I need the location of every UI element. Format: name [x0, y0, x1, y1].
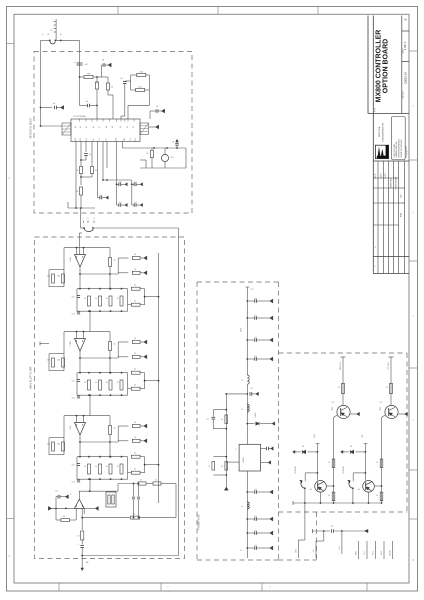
svg-text:1k: 1k	[134, 269, 136, 271]
svg-text:REL2: REL2	[381, 551, 383, 555]
svg-text:1d: 1d	[119, 182, 121, 184]
svg-text:DWG NO: DWG NO	[402, 91, 404, 98]
svg-text:POWER SAVE: POWER SAVE	[198, 514, 201, 530]
svg-text:MOB: MOB	[314, 434, 316, 437]
svg-text:1d: 1d	[53, 103, 55, 105]
svg-text:1k: 1k	[134, 338, 136, 340]
svg-text:4: 4	[375, 246, 377, 247]
svg-text:EXT 14V4: EXT 14V4	[388, 362, 390, 369]
svg-text:L2: L2	[241, 409, 243, 411]
svg-text:1k: 1k	[140, 480, 142, 482]
svg-text:2k8: 2k8	[57, 360, 60, 362]
svg-text:D1: D1	[99, 138, 101, 140]
svg-text:1k: 1k	[134, 353, 136, 355]
svg-text:1k: 1k	[134, 254, 136, 256]
svg-text:2k8: 2k8	[57, 276, 60, 278]
svg-text:2k4: 2k4	[47, 360, 50, 362]
svg-text:OPTION BOARD: OPTION BOARD	[383, 39, 390, 93]
svg-text:1d: 1d	[254, 545, 256, 547]
svg-text:C3: C3	[206, 419, 208, 421]
svg-text:7/6/99: 7/6/99	[381, 174, 383, 179]
svg-text:1d: 1d	[254, 489, 256, 491]
svg-text:1k: 1k	[106, 466, 108, 468]
svg-text:D4: D4	[120, 126, 122, 128]
svg-text:1d: 1d	[254, 298, 256, 300]
svg-text:-5: -5	[93, 218, 95, 220]
svg-text:C0022-1A: C0022-1A	[404, 72, 408, 84]
svg-text:1k: 1k	[95, 382, 97, 384]
svg-text:1d: 1d	[134, 182, 136, 184]
svg-text:1n4: 1n4	[72, 314, 75, 316]
svg-text:U2A: U2A	[69, 257, 72, 262]
svg-text:1k: 1k	[338, 387, 340, 389]
svg-text:1k: 1k	[106, 298, 108, 300]
svg-text:1: 1	[375, 265, 377, 266]
svg-text:1k: 1k	[84, 466, 86, 468]
svg-text:1k: 1k	[328, 495, 330, 497]
svg-text:1k: 1k	[95, 298, 97, 300]
svg-text:14KHz ELLIPTIC AMP: 14KHz ELLIPTIC AMP	[30, 366, 33, 389]
svg-text:U2C: U2C	[70, 425, 72, 430]
svg-text:LM2575: LM2575	[243, 457, 245, 463]
svg-text:1d: 1d	[254, 356, 256, 358]
svg-text:EXT: EXT	[362, 434, 364, 437]
svg-text:MOB 14V4: MOB 14V4	[340, 362, 342, 370]
svg-text:1k: 1k	[117, 298, 119, 300]
svg-text:1d: 1d	[156, 106, 158, 108]
svg-text:1n4: 1n4	[72, 465, 75, 467]
svg-text:1k: 1k	[134, 285, 136, 287]
svg-text:SENSE: SENSE	[390, 550, 392, 555]
svg-text:D6: D6	[133, 126, 135, 128]
svg-text:1k: 1k	[134, 469, 136, 471]
svg-text:1d: 1d	[134, 202, 136, 204]
svg-text:3n: 3n	[89, 154, 91, 156]
svg-text:1n4: 1n4	[72, 297, 75, 299]
svg-text:1n4: 1n4	[72, 381, 75, 383]
svg-text:CHK'D: CHK'D	[385, 173, 387, 179]
svg-text:EXT: EXT	[364, 551, 366, 554]
svg-text:1k: 1k	[208, 466, 210, 468]
svg-text:D2: D2	[106, 138, 108, 140]
svg-text:9: 9	[236, 449, 237, 451]
svg-text:TITLE: TITLE	[375, 108, 377, 112]
svg-text:OUT: OUT	[135, 138, 137, 141]
svg-text:2k8: 2k8	[57, 444, 60, 446]
svg-text:1k: 1k	[376, 462, 378, 464]
svg-text:2d: 2d	[102, 60, 104, 62]
svg-text:D0: D0	[93, 138, 95, 140]
svg-text:1d: 1d	[254, 516, 256, 518]
svg-text:CLK: CLK	[86, 138, 88, 141]
svg-text:D5: D5	[127, 126, 129, 128]
svg-text:B: B	[403, 18, 407, 20]
svg-text:1k: 1k	[84, 382, 86, 384]
svg-text:1k: 1k	[84, 298, 86, 300]
svg-text:VSS: VSS	[75, 138, 77, 141]
svg-text:1k: 1k	[106, 382, 108, 384]
svg-text:3k: 3k	[221, 466, 223, 468]
svg-text:2k4: 2k4	[47, 276, 50, 278]
svg-text:1k: 1k	[134, 437, 136, 439]
svg-text:1k: 1k	[221, 419, 223, 421]
svg-text:U1 HT8955A: U1 HT8955A	[73, 115, 86, 118]
svg-text:1k: 1k	[117, 382, 119, 384]
svg-text:WR: WR	[106, 126, 108, 128]
svg-text:1d: 1d	[119, 202, 121, 204]
svg-text:1n4: 1n4	[72, 482, 75, 484]
svg-text:U2B: U2B	[70, 341, 72, 346]
svg-text:1k: 1k	[95, 466, 97, 468]
svg-text:TIP32: TIP32	[380, 407, 382, 411]
svg-text:5: 5	[83, 218, 84, 220]
svg-text:SHEET: SHEET	[402, 48, 404, 53]
svg-text:1N5819: 1N5819	[255, 412, 257, 417]
svg-text:2d: 2d	[251, 388, 253, 390]
svg-text:SPECTRA: SPECTRA	[378, 126, 381, 137]
svg-text:Q4: Q4	[310, 489, 312, 491]
svg-text:1k: 1k	[134, 422, 136, 424]
svg-text:1k: 1k	[134, 385, 136, 387]
svg-text:1n4: 1n4	[72, 398, 75, 400]
svg-text:3n: 3n	[86, 101, 88, 103]
svg-text:1k: 1k	[133, 513, 135, 515]
svg-text:1k: 1k	[134, 369, 136, 371]
svg-text:1d: 1d	[331, 526, 333, 528]
svg-text:L1: L1	[241, 380, 243, 382]
svg-text:L3: L3	[241, 506, 243, 508]
svg-text:1k: 1k	[155, 480, 157, 482]
svg-text:2k4: 2k4	[47, 444, 50, 446]
svg-text:REL1: REL1	[373, 551, 375, 555]
svg-text:1d: 1d	[55, 491, 57, 493]
svg-text:1k: 1k	[114, 428, 116, 430]
svg-text:1k: 1k	[386, 387, 388, 389]
svg-text:8: 8	[88, 218, 89, 220]
svg-text:ENGINEERING P/L: ENGINEERING P/L	[383, 122, 385, 142]
svg-text:1k: 1k	[114, 344, 116, 346]
svg-text:DESIGNED MGB: DESIGNED MGB	[396, 177, 398, 189]
svg-text:1d: 1d	[254, 337, 256, 339]
svg-text:J4: J4	[51, 29, 53, 31]
svg-text:1d: 1d	[120, 78, 122, 80]
svg-text:TIP32: TIP32	[332, 407, 334, 411]
svg-text:1u: 1u	[42, 34, 44, 36]
svg-text:PHONE 61-8-94554744: PHONE 61-8-94554744	[401, 140, 403, 158]
svg-text:1k: 1k	[134, 301, 136, 303]
svg-text:1k: 1k	[117, 466, 119, 468]
svg-text:CS: CS	[99, 126, 101, 128]
svg-text:Q2: Q2	[380, 402, 382, 404]
svg-text:1k: 1k	[376, 495, 378, 497]
svg-text:1k: 1k	[134, 453, 136, 455]
svg-text:MOB: MOB	[356, 551, 358, 555]
svg-text:1k: 1k	[328, 462, 330, 464]
svg-text:1k: 1k	[114, 260, 116, 262]
svg-text:1d: 1d	[100, 195, 102, 197]
svg-text:MX800 CONTROLLER: MX800 CONTROLLER	[376, 30, 383, 103]
svg-text:Q4: Q4	[358, 489, 360, 491]
svg-text:RD: RD	[112, 126, 114, 128]
svg-text:P1B: P1B	[401, 212, 403, 217]
svg-text:IN: IN	[130, 139, 132, 141]
svg-text:1M: 1M	[87, 74, 90, 76]
svg-text:2k: 2k	[146, 153, 148, 155]
svg-text:RF DIGITAL DELAY: RF DIGITAL DELAY	[30, 117, 33, 138]
svg-text:2d: 2d	[60, 34, 62, 36]
svg-text:1d: 1d	[172, 142, 174, 144]
svg-text:Q2: Q2	[332, 402, 334, 404]
